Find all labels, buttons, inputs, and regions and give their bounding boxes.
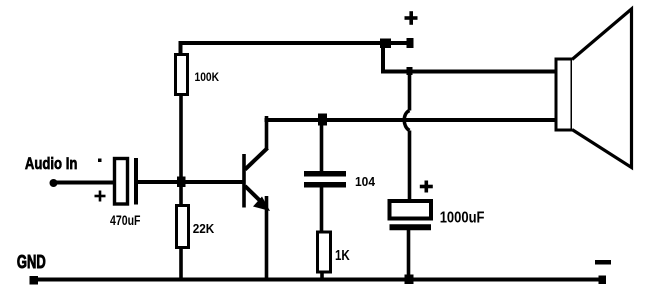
svg-text:1K: 1K <box>335 247 350 264</box>
wire C3 to ground rail <box>407 230 411 281</box>
wire 1K to ground rail <box>320 272 324 282</box>
capacitor C2 top plate <box>304 171 346 177</box>
wire junction down to C2 <box>320 120 324 172</box>
wire top supply rail <box>179 41 412 45</box>
capacitor C2 bottom plate <box>304 182 346 188</box>
wire hop over collector rail <box>404 111 409 131</box>
transistor Q1 emitter diagonal <box>245 186 267 207</box>
node input terminal <box>50 179 58 187</box>
capacitor C1 470uF positive plate <box>115 159 128 205</box>
wire base node to 22K <box>179 182 183 207</box>
wire 22K to ground rail <box>179 248 183 282</box>
capacitor C3 polarity + <box>420 181 433 193</box>
transistor Q1 base bar <box>242 154 246 208</box>
svg-text:22K: 22K <box>193 221 215 236</box>
node ground junction <box>405 275 414 285</box>
transistor Q1 emitter arrow <box>253 197 270 212</box>
wire rail junction down <box>381 43 385 74</box>
resistor R1 100K <box>176 55 188 95</box>
wire to speaker top <box>383 70 556 74</box>
speaker LS1 cone <box>572 9 632 168</box>
resistor R3 1K <box>318 232 331 272</box>
capacitor C1 negative plate <box>134 158 138 205</box>
wire emitter down to ground <box>265 196 269 281</box>
resistor R2 22K <box>177 206 189 248</box>
svg-text:104: 104 <box>355 174 376 189</box>
svg-text:470uF: 470uF <box>110 212 141 228</box>
top rail end terminal <box>407 38 414 48</box>
wire ground rail <box>31 278 605 282</box>
wire down to hop <box>408 72 412 111</box>
capacitor C3 negative plate <box>390 224 432 230</box>
node base junction <box>177 177 186 188</box>
svg-text:GND: GND <box>17 252 46 272</box>
capacitor C3 1000uF positive plate <box>390 201 432 219</box>
supply + label <box>405 11 418 25</box>
wire C1 to base <box>136 180 244 184</box>
wire input to C1 <box>54 181 116 185</box>
speaker LS1 driver <box>556 59 572 130</box>
supply - label <box>595 260 611 265</box>
wire C2 to 1K <box>320 187 324 233</box>
wire collector rail to speaker <box>265 118 557 122</box>
wire collector up <box>265 116 269 150</box>
svg-text:100K: 100K <box>195 70 220 84</box>
node top-rail junction <box>380 39 391 49</box>
wire hop to C3 <box>408 131 412 203</box>
wire 100K to base node <box>179 95 183 183</box>
ground rail left terminal <box>30 276 39 285</box>
svg-text:Audio In: Audio In <box>25 154 78 173</box>
stray dot <box>98 159 102 163</box>
ground rail right terminal <box>599 276 607 285</box>
capacitor C1 polarity + <box>95 191 106 202</box>
wire rail corner down to 100K <box>179 41 183 56</box>
svg-text:1000uF: 1000uF <box>440 210 485 227</box>
transistor Q1 collector diagonal <box>245 148 268 170</box>
node speaker feed tee <box>407 67 413 75</box>
node collector junction <box>318 114 327 126</box>
